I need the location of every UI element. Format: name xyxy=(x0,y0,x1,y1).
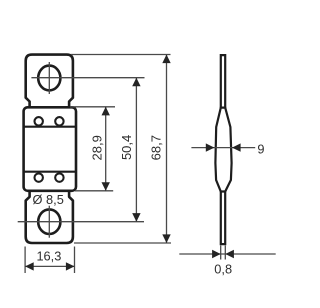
svg-text:50,4: 50,4 xyxy=(119,135,134,160)
svg-text:9: 9 xyxy=(257,141,264,156)
svg-text:Ø 8,5: Ø 8,5 xyxy=(33,192,64,207)
svg-text:68,7: 68,7 xyxy=(149,135,164,160)
svg-text:16,3: 16,3 xyxy=(36,249,61,264)
svg-text:0,8: 0,8 xyxy=(214,262,232,277)
svg-text:28,9: 28,9 xyxy=(89,135,104,160)
